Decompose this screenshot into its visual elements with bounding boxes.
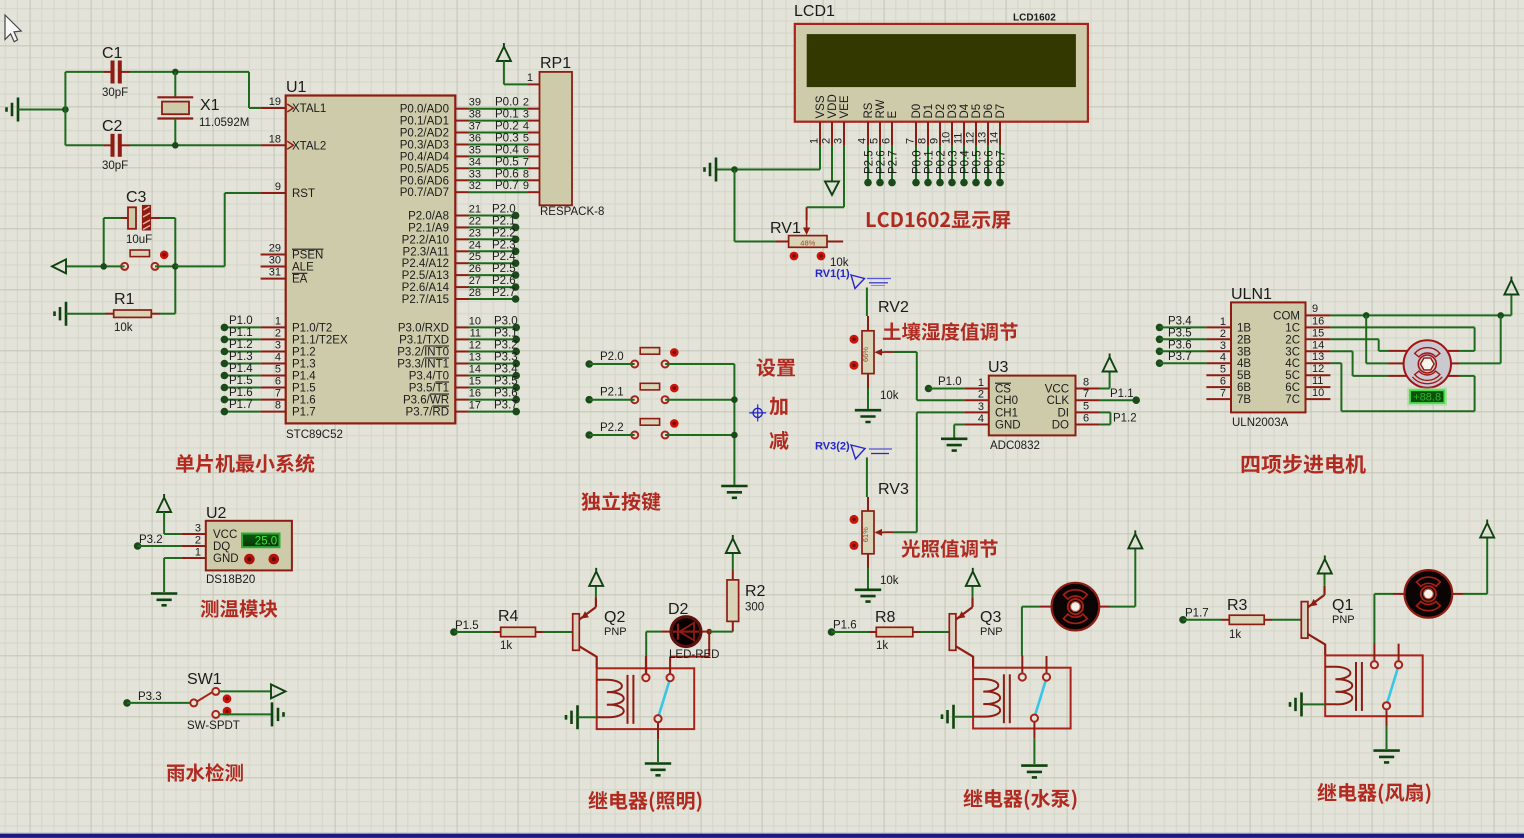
svg-text:P0.1/AD1: P0.1/AD1 [400,116,449,128]
capacitor C1 [65,45,130,99]
ULN pin 5 5B [1206,374,1231,376]
wire 1C to motor [1330,326,1474,328]
pin 1 P1.0/T2 / net P1.0 [261,326,286,328]
net label P2.7 [891,146,893,183]
wire [103,218,105,266]
wire [155,265,175,267]
svg-text:P3.6: P3.6 [1168,339,1192,351]
svg-text:16: 16 [469,388,481,400]
overline CS [995,382,1011,384]
svg-text:P1.7: P1.7 [229,399,253,411]
svg-text:21: 21 [469,204,481,216]
svg-text:P3.5: P3.5 [494,376,518,388]
caption light level adjust [901,539,997,557]
svg-text:P1.6: P1.6 [229,387,253,399]
svg-text:P1.5: P1.5 [292,383,316,395]
svg-text:11: 11 [470,327,481,339]
svg-text:7: 7 [275,388,281,400]
svg-text:8: 8 [523,168,529,180]
net label P0.5 [975,146,977,183]
svg-text:SW-SPDT: SW-SPDT [187,720,240,732]
wire [174,218,176,314]
mouse cursor [5,15,21,42]
svg-text:D3: D3 [947,104,959,119]
pin 5 P1.4 / net P1.4 [261,375,286,377]
caption LCD1602 display [867,211,1010,229]
caption plus [769,397,787,416]
svg-text:XTAL1: XTAL1 [292,103,326,115]
reset button [121,250,168,270]
svg-text:36: 36 [469,133,481,145]
svg-text:4: 4 [1220,352,1226,364]
svg-text:P1.5: P1.5 [455,620,479,632]
svg-text:RV2: RV2 [878,299,909,316]
power terminal (fan) [1480,520,1494,538]
ground (RV2) [855,410,881,422]
wire COM to motor right-middle [1500,315,1502,363]
fan motor wires [1393,593,1405,595]
svg-text:1: 1 [809,138,821,144]
svg-text:4: 4 [978,413,984,425]
svg-text:VCC: VCC [213,529,237,541]
svg-text:P2.2: P2.2 [600,422,624,434]
svg-text:P2.5: P2.5 [864,150,876,174]
svg-text:RST: RST [292,188,315,200]
power terminal (U2) [157,494,171,512]
svg-text:P0.1: P0.1 [495,109,519,121]
svg-text:P1.0: P1.0 [229,315,253,327]
ground (far left) [7,98,19,122]
svg-text:P3.3/INT1: P3.3/INT1 [397,359,449,371]
svg-text:9: 9 [523,180,529,192]
caption MCU minimal system [176,454,315,473]
crystal X1 [157,72,249,145]
svg-text:P3.5: P3.5 [1168,327,1192,339]
transistor Q2 PNP [573,607,597,657]
U2 pin 1 GND [181,557,206,559]
svg-text:P3.1: P3.1 [494,327,518,339]
svg-text:P1.1/T2EX: P1.1/T2EX [292,334,348,346]
ULN pin 15 2C [1306,338,1331,340]
svg-text:P3.4/T0: P3.4/T0 [409,371,449,383]
svg-text:RP1: RP1 [540,55,571,72]
Q2 collector wire [596,656,598,668]
VEE wire to RV1 wiper [843,146,845,208]
pin 1 wire [504,83,528,85]
svg-text:Q1: Q1 [1332,597,1353,614]
Q3 collector wire [972,656,974,668]
water pump motor [1052,583,1100,631]
svg-text:16: 16 [1312,315,1324,327]
ground (RL3 coil) [942,705,954,729]
RV1 left wire [776,241,789,243]
net label P1.7 [1179,616,1187,624]
svg-text:P0.7: P0.7 [996,150,1008,174]
push button P2.1 [631,383,678,403]
relay RL3 (pump) [973,656,1071,739]
svg-text:14: 14 [1312,339,1324,351]
node junction [1497,312,1504,319]
driver ULN1 ULN2003A body [1231,302,1306,412]
fan motor [1405,570,1453,618]
svg-text:7: 7 [523,156,529,168]
svg-text:P1.0/T2: P1.0/T2 [292,322,332,334]
transistor Q3 PNP [949,607,973,657]
U3 pin 7 [1076,399,1100,401]
svg-text:8: 8 [1083,377,1089,389]
VSS wire to ground [819,146,821,170]
RV3 wiper wire to U3 CH1 [884,531,893,533]
svg-text:5: 5 [523,133,529,145]
resistor R1 [66,291,175,334]
svg-text:P2.1/A9: P2.1/A9 [408,222,449,234]
ground (R1 left) [55,302,67,326]
RL3 pole wire + ground [1033,739,1035,764]
svg-text:D2: D2 [668,601,689,618]
svg-text:12: 12 [1312,363,1324,375]
caption temperature module [201,599,278,617]
node junction [172,263,179,270]
net label P2.2 [585,431,593,439]
svg-text:P3.5/T1: P3.5/T1 [409,383,449,395]
RV1 wiper arrow [806,220,808,229]
svg-text:38: 38 [469,109,481,121]
power terminal (pump) [1128,530,1142,548]
DI/DO tie wire, net P1.2 [1099,411,1110,413]
svg-text:P2.7/A15: P2.7/A15 [402,294,449,306]
LED D2 [668,601,719,661]
wire [66,265,125,267]
wire [18,109,65,111]
svg-text:P3.6/WR: P3.6/WR [403,395,449,407]
svg-text:11: 11 [953,133,965,144]
svg-text:C2: C2 [102,118,123,135]
Q1 collector wire [1324,644,1326,656]
ground (rotated right) [272,702,284,726]
svg-text:28: 28 [469,287,481,299]
net label P3.2 [134,542,142,550]
svg-text:7: 7 [1083,388,1089,400]
svg-text:1: 1 [1220,316,1226,328]
svg-text:5: 5 [275,364,281,376]
svg-text:+88.8: +88.8 [1413,392,1441,404]
potentiometer RV3 [850,511,885,554]
svg-text:3: 3 [1220,340,1226,352]
svg-text:6C: 6C [1285,382,1300,394]
svg-text:6: 6 [523,144,529,156]
svg-text:P2.7: P2.7 [888,150,900,174]
pin 30 [261,266,286,268]
svg-text:30pF: 30pF [102,87,128,99]
svg-text:E: E [887,111,899,119]
svg-text:14: 14 [469,364,481,376]
svg-text:EA: EA [292,274,308,286]
svg-text:P2.3/A11: P2.3/A11 [403,246,449,258]
svg-text:P1.7: P1.7 [1185,608,1209,620]
wire [1272,619,1301,621]
potentiometer RV2 [850,331,885,374]
svg-text:VCC: VCC [1045,384,1069,396]
net label P0.2 [939,146,941,183]
svg-text:D1: D1 [923,104,935,119]
net label P2.1 [585,396,593,404]
svg-text:P0.4/AD4: P0.4/AD4 [400,151,450,163]
svg-text:VDD: VDD [827,94,839,118]
resistor R8 [869,609,920,652]
pump motor wires [1040,606,1052,608]
ULN pin 10 7C [1306,398,1331,400]
ground (RL1 coil) [1290,692,1302,716]
svg-text:1: 1 [527,72,533,84]
wire [665,434,734,436]
ULN pin 9 COM [1306,314,1331,316]
LCD1 LCD1602 body [795,24,1088,122]
svg-text:P3.4: P3.4 [494,364,518,376]
svg-text:1B: 1B [1237,322,1251,334]
svg-text:3: 3 [978,401,984,413]
svg-text:VEE: VEE [839,95,851,118]
svg-text:61%: 61% [861,527,870,542]
net label P1.0 [925,385,933,393]
svg-text:15: 15 [1312,327,1324,339]
svg-text:P1.5: P1.5 [229,375,253,387]
svg-text:STC89C52: STC89C52 [286,429,343,441]
svg-text:66%: 66% [861,347,870,362]
svg-text:29: 29 [269,243,281,255]
svg-text:DQ: DQ [213,541,230,553]
svg-text:P0.1: P0.1 [924,150,936,174]
svg-text:1k: 1k [1229,629,1241,641]
svg-text:D5: D5 [971,104,983,119]
pin 29 [261,254,286,256]
svg-text:C3: C3 [126,189,147,206]
svg-text:LED-RED: LED-RED [669,649,719,661]
caption minus [769,431,788,450]
U3 pin 5 [1076,411,1100,413]
svg-text:3: 3 [275,340,281,352]
wire [130,144,261,146]
svg-text:P1.6: P1.6 [292,395,316,407]
wire 4C to motor [1330,362,1341,364]
U2 indicator dots [244,554,255,565]
svg-text:3: 3 [523,109,529,121]
pin 31 [261,278,286,280]
svg-text:15: 15 [469,376,481,388]
svg-text:2: 2 [1220,328,1226,340]
svg-text:6: 6 [881,138,893,144]
svg-text:P1.7: P1.7 [292,407,316,419]
svg-text:P3.2/INT0: P3.2/INT0 [397,347,449,359]
svg-text:10uF: 10uF [126,234,152,246]
U3 pin 2 [964,399,989,401]
svg-text:P1.3: P1.3 [229,351,253,363]
svg-text:P2.5/A13: P2.5/A13 [402,270,449,282]
svg-text:7: 7 [1220,388,1226,400]
svg-text:13: 13 [977,132,989,144]
svg-text:RV1: RV1 [770,220,801,237]
U3 pin 6 [1076,424,1100,426]
node junction [172,69,179,76]
svg-text:ULN2003A: ULN2003A [1232,417,1289,429]
svg-text:6: 6 [1083,413,1089,425]
svg-text:P2.2/A10: P2.2/A10 [402,234,449,246]
svg-text:P0.5/AD5: P0.5/AD5 [400,163,449,175]
wire [219,713,271,715]
ground (keys) [721,486,747,498]
wire [920,631,949,633]
svg-text:PSEN: PSEN [292,250,323,262]
svg-text:9: 9 [275,181,281,193]
svg-text:34: 34 [469,156,481,168]
svg-text:P2.4: P2.4 [492,251,516,263]
svg-text:P3.6: P3.6 [494,388,518,400]
stepper motor pins [1389,350,1409,352]
svg-text:2: 2 [523,97,529,109]
caption four phase stepper motor [1242,454,1366,474]
svg-text:RV1(1): RV1(1) [815,268,850,280]
svg-text:CH1: CH1 [995,407,1018,419]
caption relay (pump) [963,789,1076,810]
svg-text:22: 22 [469,215,481,227]
svg-text:3C: 3C [1285,346,1300,358]
svg-text:XTAL2: XTAL2 [292,140,326,152]
svg-text:P0.6/AD6: P0.6/AD6 [400,175,449,187]
caption relay (fan) [1317,783,1430,804]
svg-text:RS: RS [863,102,875,118]
wire [164,533,181,535]
svg-text:P0.0: P0.0 [495,97,519,109]
node junction [1363,312,1370,319]
relay RL1 (fan) [1325,643,1423,726]
svg-text:Q3: Q3 [980,609,1001,626]
svg-text:1k: 1k [500,640,512,652]
svg-text:P2.0/A8: P2.0/A8 [408,211,449,223]
svg-text:GND: GND [995,420,1021,432]
net label P3.5 [1156,336,1164,344]
svg-text:RW: RW [875,99,887,118]
cursor crosshair [753,408,762,417]
ULN pin 1 1B [1206,326,1231,328]
U2 pin 2 DQ [181,545,206,547]
svg-text:LCD1: LCD1 [794,3,835,20]
push button P2.2 [631,419,678,439]
svg-text:39: 39 [469,97,481,109]
LCD screen [807,34,1076,87]
net label P1.1 [1099,399,1136,401]
ULN pin 12 5C [1306,374,1331,376]
wire [130,71,249,73]
pin 2 P1.1/T2EX / net P1.1 [261,338,286,340]
probe cursor [851,445,865,459]
net label P1.6 [828,628,836,636]
svg-text:P0.7: P0.7 [495,180,519,192]
ground (U2) [151,594,177,606]
svg-text:P0.4: P0.4 [960,150,972,174]
svg-text:P3.7/RD: P3.7/RD [406,407,449,419]
svg-text:P3.3: P3.3 [138,691,162,703]
net label P0.0 [915,146,917,183]
relay RL2 contact jog wire [670,656,709,658]
ULN pin 6 6B [1206,386,1231,388]
net label P1.5 [450,628,458,636]
wire [219,690,271,692]
pin 4 P1.3 / net P1.3 [261,363,286,365]
svg-text:C1: C1 [102,45,123,62]
svg-text:P2.0: P2.0 [492,204,516,216]
svg-text:P0.2: P0.2 [495,121,519,133]
svg-text:P1.2: P1.2 [1113,413,1137,425]
pin 7 P1.6 / net P1.6 [261,399,286,401]
svg-text:5: 5 [869,138,881,144]
resistor R4 [493,608,543,652]
svg-text:P1.1: P1.1 [229,327,253,339]
svg-text:10: 10 [941,132,953,144]
svg-text:R3: R3 [1227,597,1248,614]
svg-text:P0.3/AD3: P0.3/AD3 [400,140,449,152]
svg-text:P1.0: P1.0 [938,376,962,388]
svg-text:DO: DO [1052,420,1069,432]
wire [665,363,734,365]
svg-text:10k: 10k [114,322,133,334]
svg-text:D0: D0 [911,104,923,119]
RV1 adjust dots [790,252,799,261]
svg-text:P2.1: P2.1 [492,215,516,227]
svg-text:P1.4: P1.4 [292,371,316,383]
caption rain detection [167,763,243,782]
svg-text:1k: 1k [876,640,888,652]
XTAL2 clock mark [287,141,293,149]
svg-text:D4: D4 [959,103,971,118]
svg-text:P1.6: P1.6 [833,620,857,632]
svg-text:ALE: ALE [292,262,314,274]
svg-text:COM: COM [1273,310,1300,322]
capacitor C3 [104,189,176,246]
power terminal (COM rail) [1504,277,1518,295]
Q2 emitter wire + power [595,598,597,607]
net label P2.0 [585,360,593,368]
ULN pin 3 3B [1206,350,1231,352]
COM rail wire [1330,314,1511,316]
svg-text:30: 30 [269,255,281,267]
svg-text:17: 17 [469,400,481,412]
svg-text:14: 14 [989,132,1001,144]
svg-text:P2.3: P2.3 [492,239,516,251]
wire [248,72,250,108]
svg-text:P2.2: P2.2 [492,227,516,239]
svg-text:19: 19 [269,96,281,108]
stepper motor body [1404,340,1451,387]
svg-text:2: 2 [195,535,201,547]
svg-text:GND: GND [213,553,239,565]
svg-text:12: 12 [469,340,481,352]
push button P2.0 [631,348,678,368]
svg-text:10k: 10k [880,575,899,587]
pin 18 [261,144,286,146]
net label P3.4 [1156,324,1164,332]
ground (RV3) [855,590,881,602]
wire to RST [175,265,224,267]
svg-text:RESPACK-8: RESPACK-8 [540,206,604,218]
svg-text:13: 13 [1312,351,1324,363]
RV1 right stub [827,241,843,243]
node junction [172,142,179,149]
svg-text:35: 35 [469,144,481,156]
svg-text:27: 27 [469,275,481,287]
pin 19 [261,107,286,109]
svg-text:P0.0: P0.0 [912,150,924,174]
svg-text:P1.4: P1.4 [229,363,253,375]
Q1 emitter wire + power [1323,586,1325,595]
